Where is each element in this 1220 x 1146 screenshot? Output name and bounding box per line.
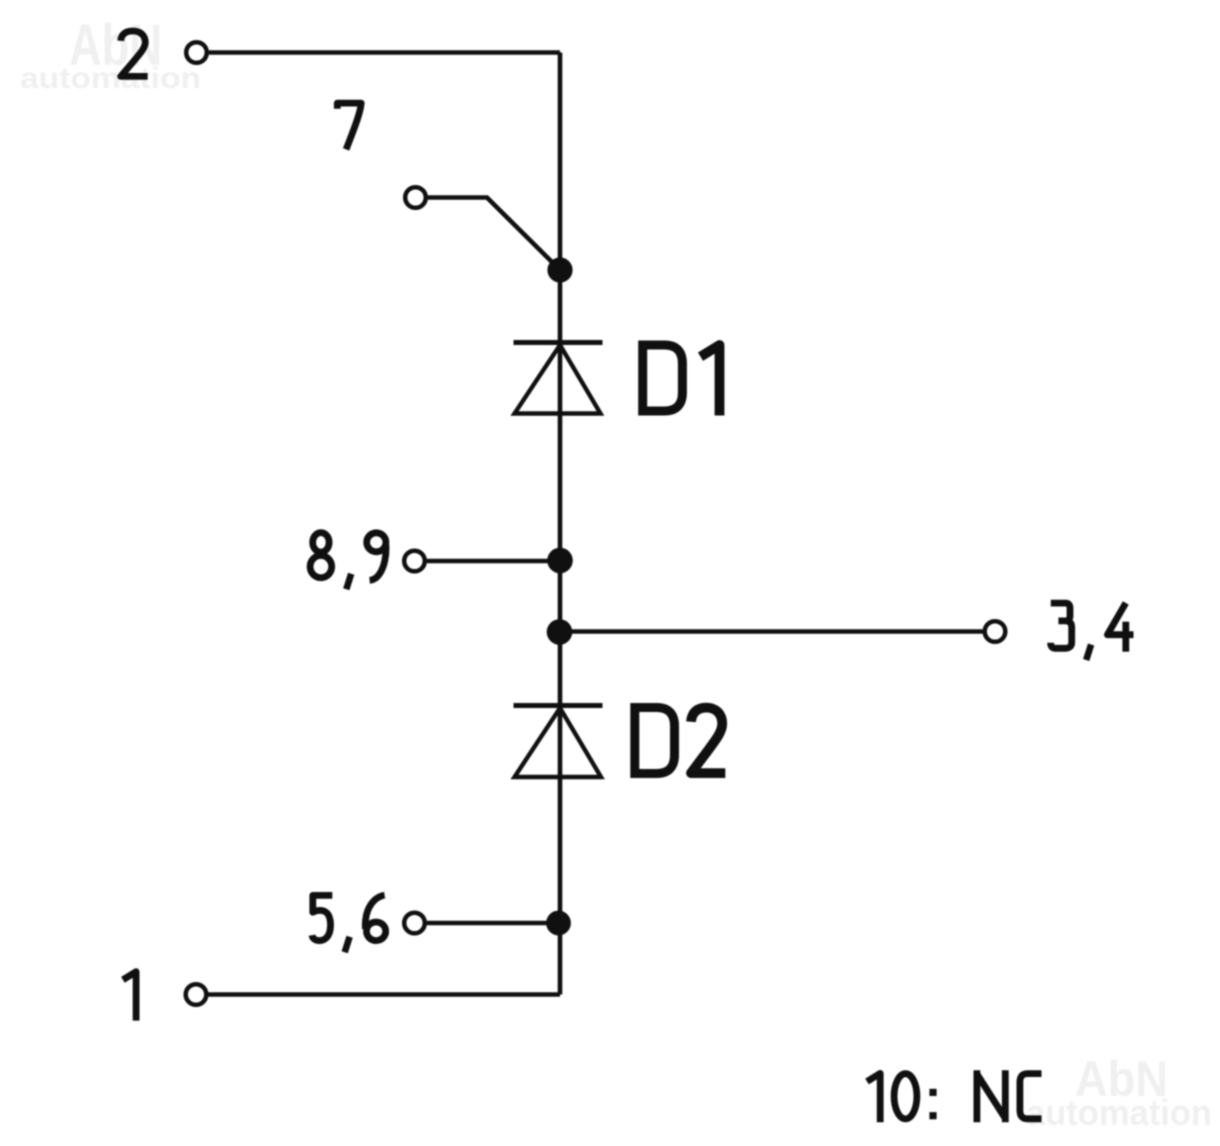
svg-text:automation: automation	[20, 62, 201, 95]
svg-text:automation: automation	[1026, 1092, 1212, 1133]
